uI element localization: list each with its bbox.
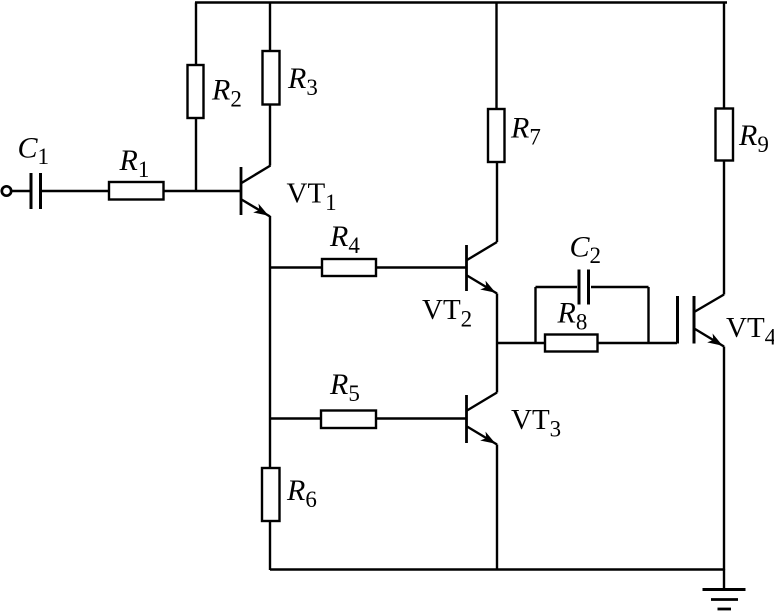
wire VT4 emitter down xyxy=(723,347,725,571)
wire VT3 emitter down xyxy=(496,445,498,571)
svg-text:R5: R5 xyxy=(329,368,360,406)
resistor R1 xyxy=(109,144,164,200)
svg-text:R6: R6 xyxy=(286,474,317,512)
wire R1 to VT1 base xyxy=(164,190,241,192)
resistor R8 xyxy=(545,297,598,352)
capacitor C2 xyxy=(570,231,602,305)
wire terminal to C1 xyxy=(11,190,30,192)
wire R8 to VT4 gate xyxy=(598,342,678,344)
wire C2 right leg xyxy=(591,287,649,343)
wire to ground xyxy=(723,570,725,590)
svg-text:C1: C1 xyxy=(18,132,50,170)
svg-text:R2: R2 xyxy=(211,74,242,112)
wire VT1 collector to R3 xyxy=(269,105,271,166)
svg-text:VT4: VT4 xyxy=(726,312,774,350)
wire C2 left leg xyxy=(536,287,578,343)
svg-text:R4: R4 xyxy=(329,220,360,258)
wire R3 top to top rail xyxy=(269,3,271,52)
ground xyxy=(703,590,746,610)
wire VT2 emitter to VT3 collector xyxy=(496,294,498,393)
wire node to R4 xyxy=(270,266,322,268)
resistor R5 xyxy=(321,368,376,428)
resistor R6 xyxy=(262,468,317,521)
wire bottom rail xyxy=(270,568,724,570)
transistor VT4 xyxy=(678,295,774,350)
svg-text:R9: R9 xyxy=(738,119,769,157)
wire VT2 collector to R7 xyxy=(496,162,498,242)
resistor R9 xyxy=(716,109,769,161)
resistor R3 xyxy=(263,51,318,105)
transistor VT3 xyxy=(467,393,562,445)
wire R2 bottom to base rail xyxy=(195,118,197,192)
svg-text:VT2: VT2 xyxy=(422,294,472,332)
wire R5 to VT3 base xyxy=(376,417,466,419)
svg-text:R1: R1 xyxy=(119,144,150,182)
wire VT1 emitter down to R6 xyxy=(269,216,271,468)
wire node to R5 xyxy=(270,417,321,419)
wire node to R8 xyxy=(497,342,545,344)
resistor R2 xyxy=(188,65,242,118)
capacitor C1 xyxy=(18,132,50,210)
svg-text:R8: R8 xyxy=(557,297,588,335)
wire C1 to R1 xyxy=(42,190,109,192)
svg-text:VT3: VT3 xyxy=(511,404,561,442)
svg-text:C2: C2 xyxy=(570,231,602,269)
transistor VT1 xyxy=(241,166,337,217)
wire top rail xyxy=(195,1,727,3)
wire R7 top to top rail xyxy=(495,3,497,110)
wire left drop to R2 xyxy=(195,3,197,67)
wire R4 to VT2 base xyxy=(376,266,466,268)
input terminal xyxy=(2,186,11,195)
svg-text:VT1: VT1 xyxy=(287,178,337,216)
wire R6 bottom to bottom rail xyxy=(269,521,271,570)
wire VT4 collector to R9 xyxy=(723,161,725,295)
resistor R7 xyxy=(488,109,541,162)
wire R9 top to top rail xyxy=(723,3,725,109)
resistor R4 xyxy=(322,220,376,276)
svg-text:R7: R7 xyxy=(510,112,541,150)
svg-text:R3: R3 xyxy=(287,62,318,100)
transistor VT2 xyxy=(422,242,497,332)
